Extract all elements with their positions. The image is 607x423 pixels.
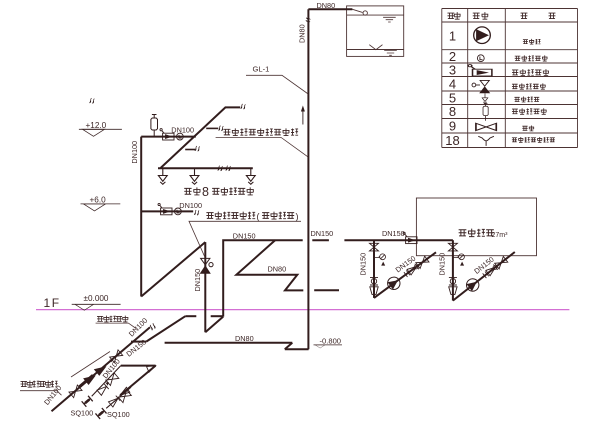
reducer pump1: [370, 287, 378, 295]
wire adapter branch A: [92, 366, 121, 397]
svg-text:5: 5: [449, 90, 456, 105]
small circle pump1: [414, 265, 418, 269]
legend symbol signal valve: [468, 65, 492, 76]
svg-text:+6.0: +6.0: [90, 196, 107, 205]
wire sprinkler branch line: [158, 167, 253, 169]
open arrowhead D2 bottom: [120, 387, 130, 395]
gate valve on pump2 vertical: [448, 243, 457, 251]
legend symbol pump: [474, 27, 491, 44]
svg-text:DN80: DN80: [298, 24, 307, 43]
wire bottom horizontal to riser: [285, 348, 309, 350]
svg-text:8: 8: [449, 104, 456, 119]
check valve pump1: [407, 264, 419, 275]
sensor stub pump1: [373, 263, 375, 265]
pressure gauge stub pump1: [374, 256, 379, 257]
svg-text:DN100: DN100: [130, 141, 139, 164]
text sprinklers-per-row 只闭式喷头: [212, 187, 254, 195]
svg-text:DN150: DN150: [233, 232, 256, 241]
signal valve on branch-2: [158, 203, 172, 214]
svg-text:SQ100: SQ100: [71, 408, 94, 417]
level line +-0.000: [72, 303, 121, 305]
svg-text:DN100: DN100: [179, 201, 202, 210]
legend header 图例: [473, 12, 488, 19]
sprinkler head 1: [158, 168, 167, 184]
svg-text:18: 18: [445, 133, 459, 148]
sprinkler head 3: [246, 168, 255, 184]
svg-text:DN150: DN150: [193, 269, 202, 292]
wire D1 horizontal a: [185, 315, 196, 317]
wire main riser GL-1 vertical: [307, 9, 309, 349]
level line +12.0: [79, 128, 122, 130]
break symbol floating top-left: [89, 98, 94, 103]
wire sprinkler feed diagonal: [161, 107, 241, 167]
legend symbol dry alarm valve: [472, 80, 489, 92]
legend name 喷淋泵: [523, 39, 541, 44]
legend name 消防水泵接合器: [512, 137, 555, 142]
wire D1 horizontal b: [211, 315, 224, 317]
pump adapter 1 SQ100: [82, 396, 93, 407]
gate valve branch B: [118, 390, 131, 403]
svg-text:3: 3: [449, 62, 456, 77]
text dry alarm group 含空压机: [262, 212, 294, 219]
leader to-pool label: [96, 323, 137, 328]
wire DN80 bottom horizontal: [165, 342, 293, 344]
dry alarm valve symbol: [201, 258, 213, 273]
wire adapter branch B: [106, 387, 131, 408]
svg-text:SQ100: SQ100: [107, 410, 130, 419]
gate valve branch A + dot: [104, 373, 119, 387]
air vent (auto exhaust valve) on branch-1: [151, 115, 158, 137]
text dry alarm group 干式报警阀组: [206, 212, 255, 219]
svg-text:DN150: DN150: [382, 229, 405, 238]
text roof tank feed 屋顶消防水箱补水管: [223, 128, 298, 135]
wire DN150 horizontal + L drop: [223, 240, 303, 316]
gate valve on pump2 diagonal: [495, 256, 508, 268]
wire stub (lower): [185, 149, 195, 151]
sensor stub pump2: [452, 263, 454, 265]
level line +6.0: [81, 203, 121, 205]
svg-text:DN150: DN150: [437, 253, 446, 276]
wire DN80 bottom jog diagonal: [285, 343, 293, 350]
level line -0.800: [314, 344, 343, 346]
gate valve on pump1 vertical: [370, 243, 379, 251]
svg-text:): ): [296, 211, 299, 221]
text sprinklers-per-row 每行: [184, 187, 200, 195]
svg-text:1: 1: [449, 28, 456, 43]
break symbol lower stub: [195, 146, 200, 151]
wire pump1 suction diagonal: [374, 252, 436, 298]
butterfly valve pump2: [449, 277, 457, 285]
check valve on municipal line1: [108, 350, 122, 364]
pump 1 (spray pump): [385, 275, 402, 292]
svg-text:DN80: DN80: [268, 265, 287, 274]
legend header 名: [521, 13, 528, 18]
signal valve on branch-1: [160, 129, 174, 140]
flow arrow municipal (solid double chevron): [79, 375, 93, 387]
svg-text:DN150: DN150: [311, 229, 334, 238]
thin guide line along municipal arrow: [71, 352, 110, 378]
legend name 水流指示器: [515, 55, 548, 61]
legend header 序号: [447, 12, 460, 19]
svg-text:DN100: DN100: [127, 316, 149, 338]
water tank (roof fire water tank): [347, 6, 404, 57]
flow indicator on branch-1: [177, 133, 184, 140]
svg-text:±0.000: ±0.000: [84, 294, 109, 303]
svg-text:1F: 1F: [44, 296, 61, 310]
wire DN80 upper Z-jog: [236, 240, 303, 290]
leader dry alarm valve group: [189, 221, 301, 256]
break symbol upper stub: [218, 126, 223, 131]
wire DN150 horizontal right of riser: [344, 239, 453, 241]
wire DN150 dash under label: [312, 239, 329, 241]
break symbol on riser top: [306, 18, 311, 22]
fire pool rectangle 消防水池: [416, 198, 536, 256]
wire pump2 suction diagonal: [453, 252, 515, 301]
level triangle +-0.000: [75, 304, 94, 310]
gate valve on pump1 diagonal: [416, 256, 429, 268]
legend symbol closed sprinkler: [482, 93, 488, 103]
sensor dot pump1: [381, 262, 385, 266]
wire elbow join drop-to-L: [205, 317, 223, 333]
break symbol municipal top: [149, 323, 157, 331]
small circle pump2: [493, 266, 497, 270]
level triangle +12.0: [83, 129, 105, 136]
svg-text:DN150: DN150: [359, 253, 368, 276]
svg-text:-0.800: -0.800: [320, 336, 342, 345]
legend header 称: [549, 13, 556, 18]
wire adapter DN150 diagonal D1: [146, 316, 185, 341]
leader under tank-feed label: [216, 138, 308, 157]
water level symbol tank top: [383, 17, 396, 22]
flow indicator on branch-2: [175, 208, 182, 215]
signal valve on pool feed line: [403, 232, 417, 243]
level triangle -0.800: [315, 345, 325, 348]
break symbol branch-2 end: [194, 210, 199, 215]
float valve in tank: [352, 9, 367, 15]
wire municipal main diagonal DN100: [52, 327, 151, 411]
legend symbol auto air vent: [483, 104, 488, 121]
wire DN100 left riser vertical: [140, 137, 142, 297]
check valve branch B: [108, 396, 120, 407]
wire branch-2 horizontal at +6: [141, 210, 193, 212]
legend symbol gate valve: [476, 123, 496, 130]
wire DN80 continuation right of riser: [314, 289, 339, 291]
svg-text:4: 4: [449, 76, 456, 91]
svg-text:DN100: DN100: [171, 126, 194, 135]
legend name 闭式喷头: [514, 97, 539, 102]
pressure gauge stub pump2: [453, 256, 458, 257]
svg-text:DN80: DN80: [317, 1, 336, 10]
svg-text:(: (: [257, 211, 260, 221]
wire DN150 alarm drop pipe: [204, 242, 206, 332]
wire stub from municipal junction: [131, 341, 146, 343]
svg-text:9: 9: [449, 118, 456, 133]
text fire pool 消防水池: [459, 229, 494, 237]
wire pump1 discharge vertical: [373, 240, 375, 298]
legend symbol flow indicator: [477, 55, 484, 62]
pump adapter 2 SQ100: [95, 408, 106, 419]
floor line 1F (magenta): [36, 309, 569, 311]
wire branch-1 horizontal at +12: [141, 136, 196, 138]
text municipal supply 接市政给水管: [21, 381, 58, 388]
legend name 安全信号阀: [512, 69, 549, 75]
wire diagonal riser-to-alarm-valve: [141, 242, 205, 296]
water level symbol tank bottom: [384, 51, 397, 56]
sprinkler head 2: [190, 168, 199, 184]
legend name 干式报警阀: [512, 83, 546, 89]
tank outlet vee: [369, 45, 382, 50]
wire pump2 discharge vertical: [452, 240, 454, 300]
break symbol diagonal top end: [241, 104, 246, 109]
wire stub to tank feed (upper): [206, 127, 218, 129]
open arrowhead D2 top: [147, 366, 156, 373]
legend name 闸阀: [522, 125, 534, 130]
flow arrow up beside riser: [302, 109, 304, 125]
break symbol sprinkler line b: [226, 166, 231, 171]
pressure gauge pump1: [380, 254, 386, 260]
flex joint pump1: [404, 270, 410, 277]
wire top horizontal DN80 into tank: [308, 8, 352, 10]
legend name 自动排气阀: [512, 108, 547, 114]
legend symbol pump adapter: [478, 136, 494, 146]
pump 2 (spray pump): [464, 276, 481, 293]
legend table grid: [442, 9, 578, 148]
svg-text:27m³: 27m³: [492, 232, 509, 239]
reducer pump2: [449, 287, 457, 295]
butterfly valve pump1: [370, 277, 378, 285]
wire D2 diagonal: [120, 366, 155, 396]
svg-text:8: 8: [202, 185, 209, 199]
check valve branch A: [97, 384, 109, 395]
leader municipal label: [20, 391, 62, 396]
svg-text:GL-1: GL-1: [253, 65, 270, 74]
svg-text:+12.0: +12.0: [86, 121, 107, 130]
gate valve municipal: [69, 385, 82, 398]
flex joint pump2: [483, 272, 489, 279]
level triangle +6.0: [84, 204, 106, 211]
pressure gauge pump2: [459, 254, 465, 260]
break symbol sprinkler line a: [218, 166, 223, 171]
wire H_a horizontal: [121, 365, 156, 367]
check valve pump2: [486, 264, 498, 275]
sensor dot pump2: [460, 262, 464, 266]
text to fire pool 至消防水池: [97, 316, 128, 322]
leader for GL-1: [246, 75, 308, 93]
svg-text:DN80: DN80: [235, 334, 254, 343]
